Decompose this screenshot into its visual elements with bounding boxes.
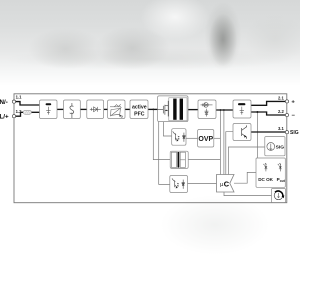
svg-text:OVP: OVP xyxy=(198,136,213,143)
svg-text:2.2: 2.2 xyxy=(278,109,284,114)
svg-text:2.1: 2.1 xyxy=(278,95,284,100)
svg-text:C: C xyxy=(224,180,230,189)
svg-text:SIG: SIG xyxy=(290,130,299,136)
svg-text:3.1: 3.1 xyxy=(278,126,284,131)
svg-text:active: active xyxy=(132,104,147,110)
svg-text:N/-: N/- xyxy=(0,99,8,106)
svg-text:L/+: L/+ xyxy=(0,114,9,121)
svg-text:PFC: PFC xyxy=(134,112,145,118)
svg-text:1.2: 1.2 xyxy=(16,109,22,114)
svg-text:+: + xyxy=(291,100,295,106)
svg-text:DC OK: DC OK xyxy=(258,177,273,182)
svg-text:−: − xyxy=(292,113,296,119)
svg-text:SIG: SIG xyxy=(276,145,285,151)
svg-text:1.1: 1.1 xyxy=(16,95,22,100)
